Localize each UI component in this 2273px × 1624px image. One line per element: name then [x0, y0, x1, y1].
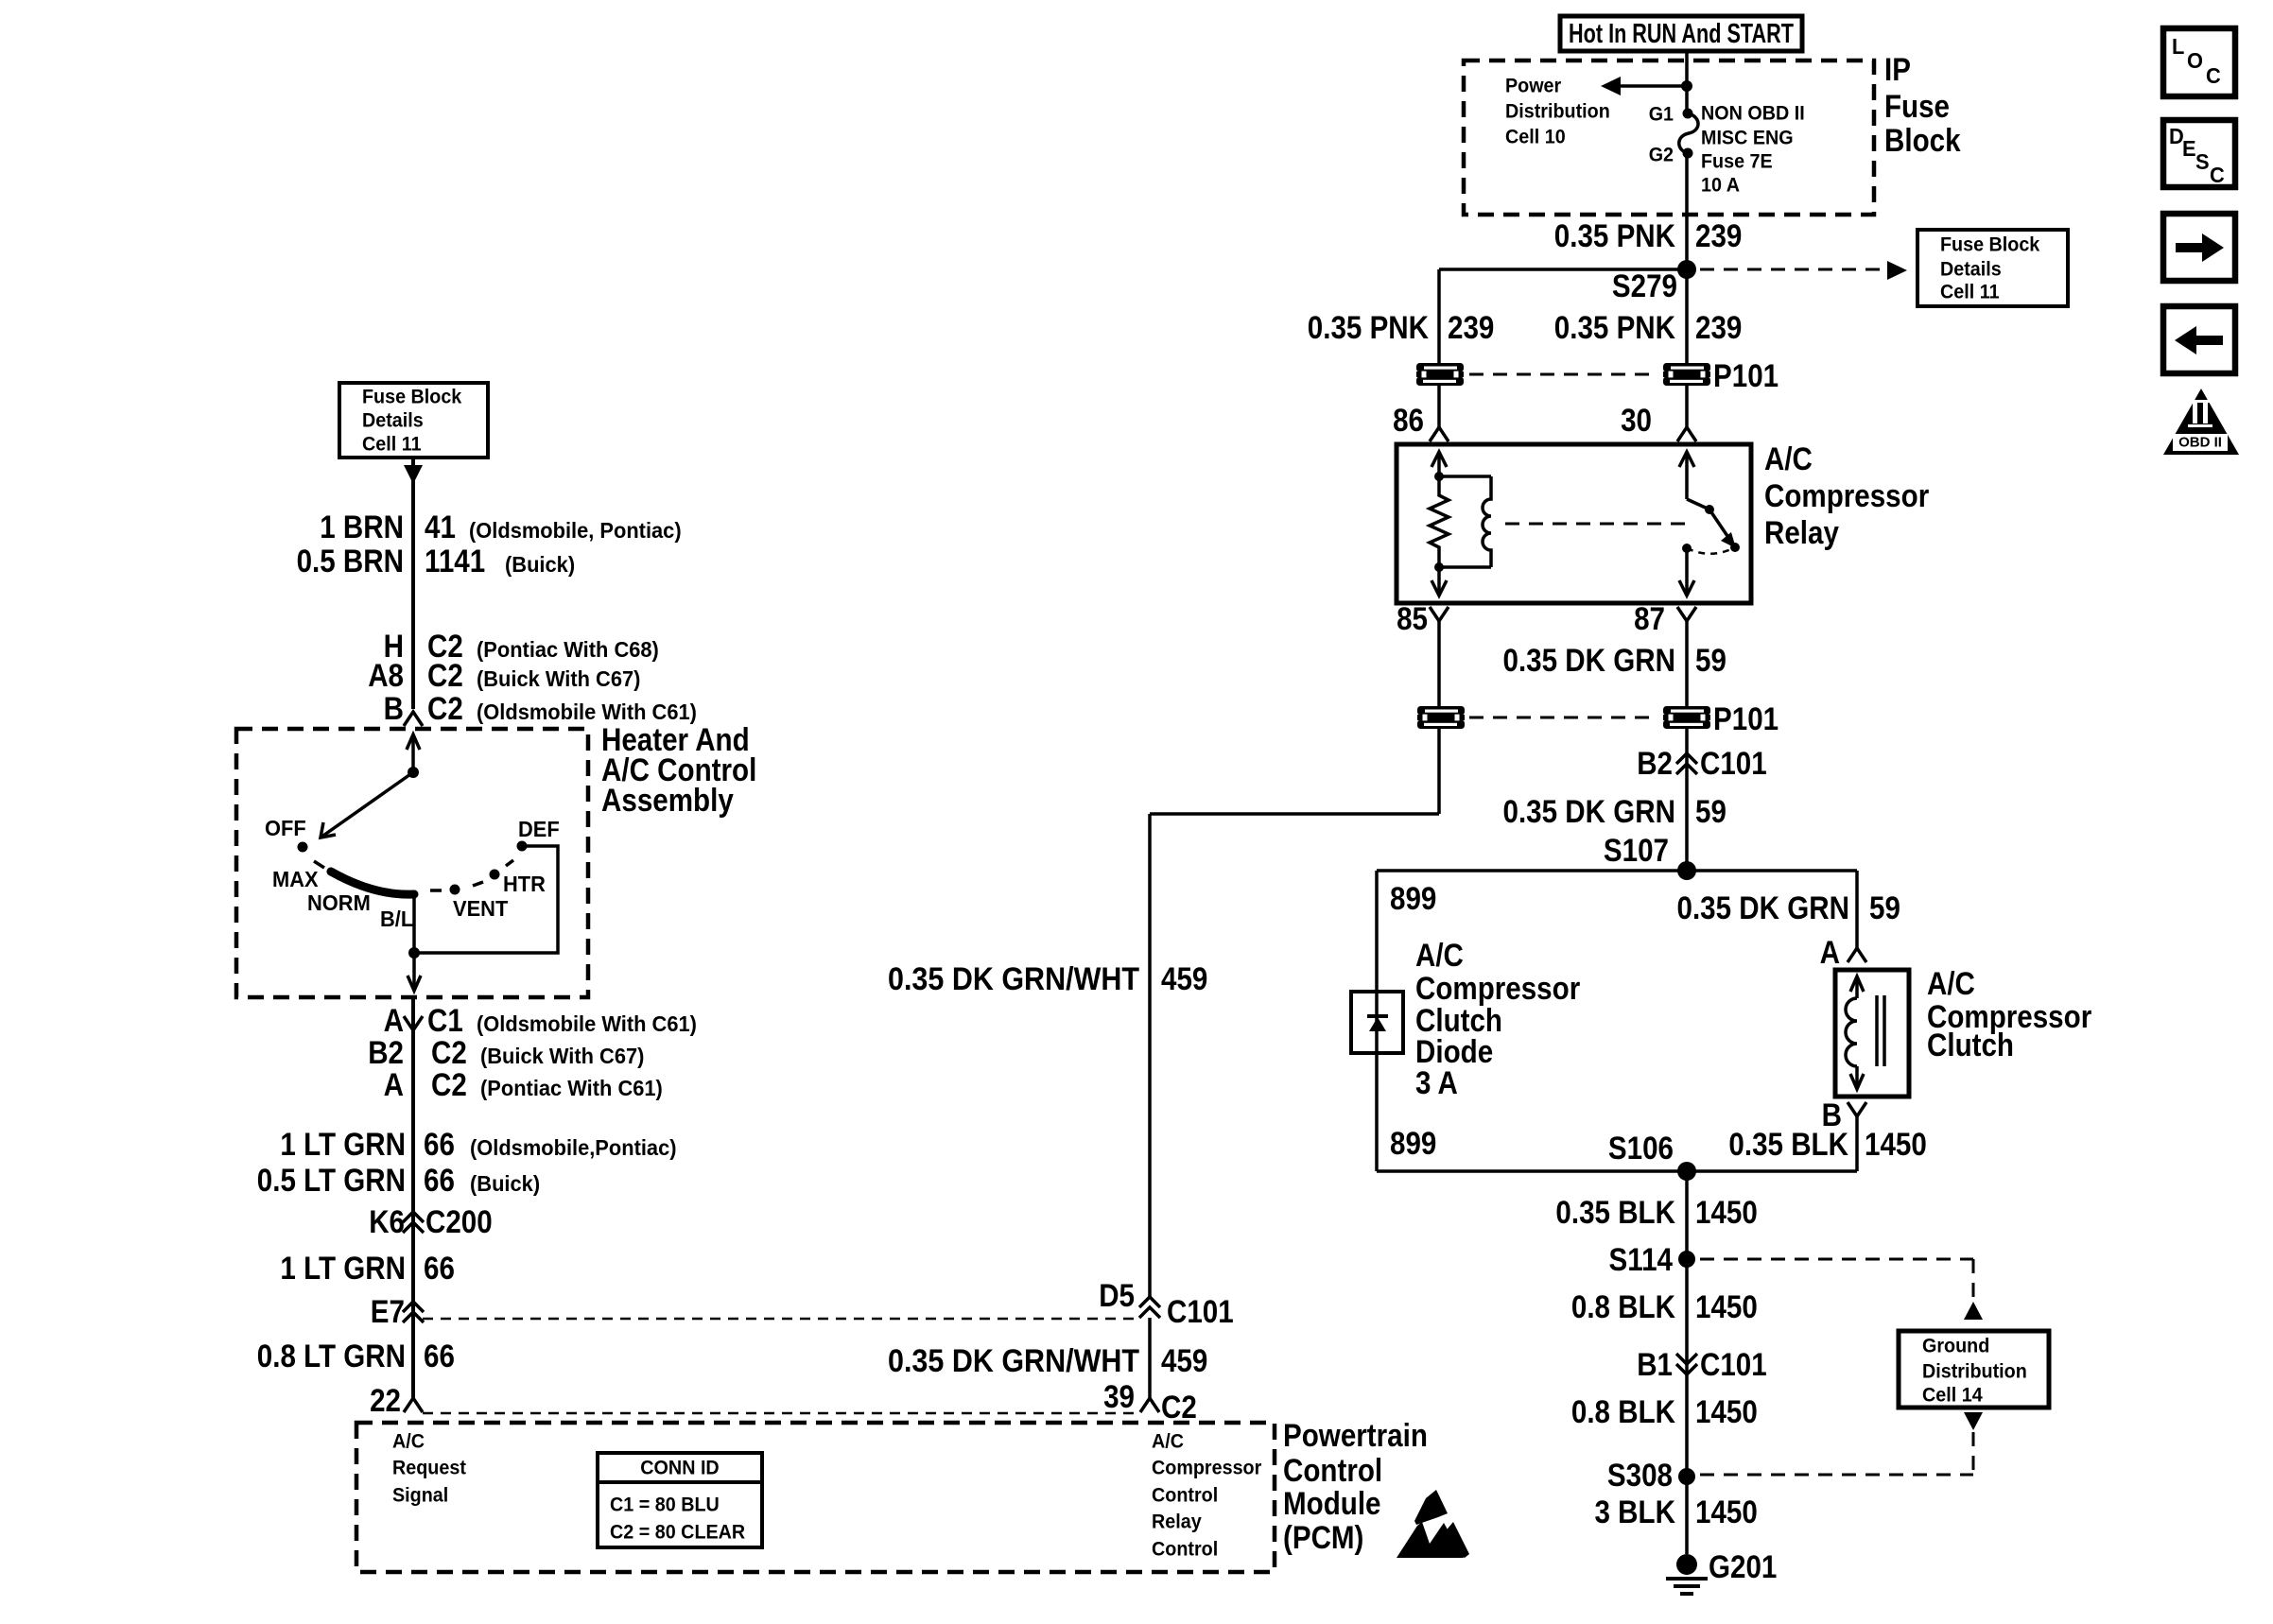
svg-text:MAX: MAX [272, 867, 319, 891]
svg-text:Relay: Relay [1152, 1512, 1202, 1533]
svg-text:39: 39 [1103, 1379, 1135, 1415]
svg-text:0.35 DK GRN/WHT: 0.35 DK GRN/WHT [888, 961, 1139, 997]
svg-text:B/L: B/L [380, 907, 413, 931]
svg-text:Request: Request [392, 1458, 466, 1479]
svg-text:B2: B2 [1637, 746, 1673, 782]
svg-text:NORM: NORM [307, 890, 371, 915]
svg-text:S308: S308 [1607, 1458, 1673, 1494]
svg-text:VENT: VENT [453, 896, 508, 921]
svg-text:Cell 11: Cell 11 [362, 434, 422, 456]
svg-text:S279: S279 [1612, 268, 1677, 304]
svg-text:A8: A8 [368, 658, 404, 694]
svg-text:OBD II: OBD II [2178, 435, 2222, 451]
svg-text:66: 66 [424, 1339, 455, 1374]
svg-text:E: E [2182, 136, 2196, 161]
svg-text:G201: G201 [1709, 1549, 1777, 1585]
svg-text:G2: G2 [1649, 145, 1674, 166]
svg-text:C2: C2 [431, 1035, 467, 1071]
svg-text:C101: C101 [1700, 746, 1767, 782]
svg-text:1141: 1141 [425, 544, 485, 579]
svg-text:Distribution: Distribution [1922, 1361, 2027, 1383]
svg-text:S: S [2195, 149, 2210, 174]
svg-text:239: 239 [1695, 218, 1742, 254]
svg-text:O: O [2187, 48, 2203, 73]
svg-text:Relay: Relay [1764, 515, 1839, 551]
svg-text:Details: Details [362, 410, 424, 432]
svg-text:C2: C2 [427, 658, 463, 694]
svg-text:459: 459 [1161, 1343, 1207, 1379]
svg-text:(Oldsmobile With C61): (Oldsmobile With C61) [477, 1011, 697, 1036]
svg-text:Fuse 7E: Fuse 7E [1701, 151, 1773, 173]
svg-text:239: 239 [1448, 310, 1494, 346]
svg-text:C2: C2 [431, 1067, 467, 1103]
svg-text:0.35 PNK: 0.35 PNK [1308, 310, 1430, 346]
svg-text:0.5 BRN: 0.5 BRN [297, 544, 404, 579]
svg-text:0.35 BLK: 0.35 BLK [1555, 1195, 1675, 1231]
svg-text:Control: Control [1152, 1539, 1218, 1561]
svg-text:Control: Control [1152, 1485, 1218, 1507]
svg-text:(Buick): (Buick) [505, 552, 575, 577]
svg-text:41: 41 [425, 510, 456, 545]
svg-text:Cell 11: Cell 11 [1940, 282, 2000, 303]
svg-text:S114: S114 [1609, 1242, 1674, 1278]
svg-text:59: 59 [1869, 890, 1900, 926]
svg-text:Signal: Signal [392, 1485, 448, 1507]
svg-text:C2: C2 [1161, 1390, 1197, 1425]
svg-text:C101: C101 [1167, 1294, 1234, 1330]
svg-text:(Buick With C67): (Buick With C67) [477, 666, 640, 691]
svg-text:K6: K6 [369, 1204, 405, 1240]
svg-text:30: 30 [1621, 403, 1652, 439]
svg-text:3 A: 3 A [1415, 1065, 1458, 1101]
svg-text:Power: Power [1505, 76, 1561, 97]
svg-text:22: 22 [370, 1383, 401, 1419]
svg-text:0.35 PNK: 0.35 PNK [1554, 218, 1676, 254]
svg-text:B1: B1 [1637, 1347, 1673, 1383]
svg-text:G1: G1 [1649, 104, 1674, 126]
svg-text:Ground: Ground [1922, 1336, 1989, 1357]
svg-text:Compressor: Compressor [1764, 478, 1929, 514]
svg-text:P101: P101 [1713, 358, 1778, 394]
svg-text:66: 66 [424, 1251, 455, 1287]
svg-text:0.5 LT GRN: 0.5 LT GRN [257, 1163, 406, 1199]
svg-text:CONN ID: CONN ID [640, 1458, 719, 1479]
svg-text:(Oldsmobile,Pontiac): (Oldsmobile,Pontiac) [470, 1135, 677, 1160]
svg-text:Compressor: Compressor [1415, 971, 1580, 1007]
svg-text:10 A: 10 A [1701, 175, 1740, 197]
svg-text:A/C: A/C [1764, 441, 1813, 477]
svg-text:S107: S107 [1604, 833, 1669, 869]
svg-text:Details: Details [1940, 259, 2002, 281]
svg-text:1450: 1450 [1695, 1195, 1758, 1231]
svg-text:0.35 DK GRN: 0.35 DK GRN [1503, 643, 1676, 679]
svg-text:1 BRN: 1 BRN [320, 510, 404, 545]
svg-text:Fuse: Fuse [1884, 89, 1950, 125]
svg-text:59: 59 [1695, 794, 1726, 830]
svg-text:1450: 1450 [1695, 1394, 1758, 1430]
svg-text:Control: Control [1283, 1453, 1382, 1489]
svg-text:239: 239 [1695, 310, 1742, 346]
svg-text:Distribution: Distribution [1505, 101, 1610, 123]
svg-text:HTR: HTR [503, 872, 546, 896]
svg-text:1 LT GRN: 1 LT GRN [280, 1251, 406, 1287]
svg-text:1450: 1450 [1865, 1127, 1927, 1163]
svg-text:0.8 LT GRN: 0.8 LT GRN [257, 1339, 406, 1374]
svg-text:85: 85 [1397, 601, 1428, 637]
svg-text:(Oldsmobile With C61): (Oldsmobile With C61) [477, 700, 697, 724]
svg-text:Hot In RUN And START: Hot In RUN And START [1569, 19, 1794, 49]
svg-text:(Buick): (Buick) [470, 1171, 540, 1196]
svg-text:0.35 DK GRN/WHT: 0.35 DK GRN/WHT [888, 1343, 1139, 1379]
svg-text:MISC ENG: MISC ENG [1701, 128, 1794, 149]
svg-text:C200: C200 [425, 1204, 493, 1240]
svg-text:C: C [2210, 163, 2225, 187]
svg-text:(Oldsmobile, Pontiac): (Oldsmobile, Pontiac) [469, 518, 682, 543]
svg-text:(PCM): (PCM) [1283, 1520, 1363, 1556]
svg-text:0.35 BLK: 0.35 BLK [1728, 1127, 1848, 1163]
svg-text:Cell 14: Cell 14 [1922, 1385, 1983, 1407]
svg-text:3 BLK: 3 BLK [1595, 1494, 1676, 1530]
svg-text:C101: C101 [1700, 1347, 1767, 1383]
svg-text:Block: Block [1884, 123, 1961, 159]
svg-text:0.35 DK GRN: 0.35 DK GRN [1503, 794, 1676, 830]
svg-text:Powertrain: Powertrain [1283, 1418, 1428, 1454]
svg-text:C2: C2 [427, 691, 463, 727]
svg-text:A/C: A/C [1152, 1431, 1184, 1453]
svg-text:A: A [384, 1003, 404, 1039]
svg-text:Module: Module [1283, 1486, 1381, 1522]
svg-text:1 LT GRN: 1 LT GRN [280, 1127, 406, 1163]
svg-text:NON OBD II: NON OBD II [1701, 103, 1805, 125]
svg-text:Assembly: Assembly [601, 783, 734, 819]
svg-text:A: A [1820, 935, 1840, 971]
svg-text:0.8 BLK: 0.8 BLK [1571, 1394, 1675, 1430]
svg-text:59: 59 [1695, 643, 1726, 679]
svg-text:66: 66 [424, 1127, 455, 1163]
svg-text:0.8 BLK: 0.8 BLK [1571, 1289, 1675, 1325]
svg-text:B: B [384, 691, 404, 727]
svg-text:66: 66 [424, 1163, 455, 1199]
svg-text:87: 87 [1634, 601, 1665, 637]
svg-text:A/C: A/C [1927, 966, 1975, 1002]
svg-text:A/C: A/C [392, 1431, 425, 1453]
svg-text:0.35 PNK: 0.35 PNK [1554, 310, 1676, 346]
svg-text:C2 = 80 CLEAR: C2 = 80 CLEAR [610, 1522, 745, 1544]
svg-text:Fuse Block: Fuse Block [1940, 234, 2040, 256]
svg-text:1450: 1450 [1695, 1289, 1758, 1325]
svg-text:86: 86 [1393, 403, 1424, 439]
svg-text:S106: S106 [1608, 1131, 1674, 1166]
svg-text:P101: P101 [1713, 701, 1778, 737]
svg-text:A: A [384, 1067, 404, 1103]
svg-text:(Pontiac With C68): (Pontiac With C68) [477, 637, 659, 662]
svg-text:IP: IP [1884, 52, 1911, 88]
svg-text:Clutch: Clutch [1927, 1028, 2014, 1063]
svg-text:E7: E7 [371, 1294, 405, 1330]
svg-text:(Pontiac With C61): (Pontiac With C61) [480, 1076, 663, 1100]
svg-text:(Buick With C67): (Buick With C67) [480, 1044, 644, 1068]
svg-text:899: 899 [1390, 881, 1436, 917]
svg-text:A/C: A/C [1415, 938, 1464, 974]
svg-text:OFF: OFF [265, 816, 306, 840]
svg-text:DEF: DEF [518, 817, 560, 841]
svg-text:Fuse Block: Fuse Block [362, 387, 462, 408]
svg-text:B2: B2 [368, 1035, 404, 1071]
svg-text:C1 = 80 BLU: C1 = 80 BLU [610, 1494, 720, 1516]
svg-text:0.35 DK GRN: 0.35 DK GRN [1677, 890, 1850, 926]
svg-text:D5: D5 [1099, 1278, 1135, 1314]
svg-text:459: 459 [1161, 961, 1207, 997]
svg-text:Cell 10: Cell 10 [1505, 127, 1566, 148]
svg-text:C1: C1 [427, 1003, 463, 1039]
svg-text:L: L [2172, 34, 2184, 59]
svg-text:899: 899 [1390, 1126, 1436, 1162]
svg-text:Compressor: Compressor [1152, 1458, 1261, 1479]
svg-text:1450: 1450 [1695, 1494, 1758, 1530]
svg-text:C: C [2206, 63, 2221, 88]
